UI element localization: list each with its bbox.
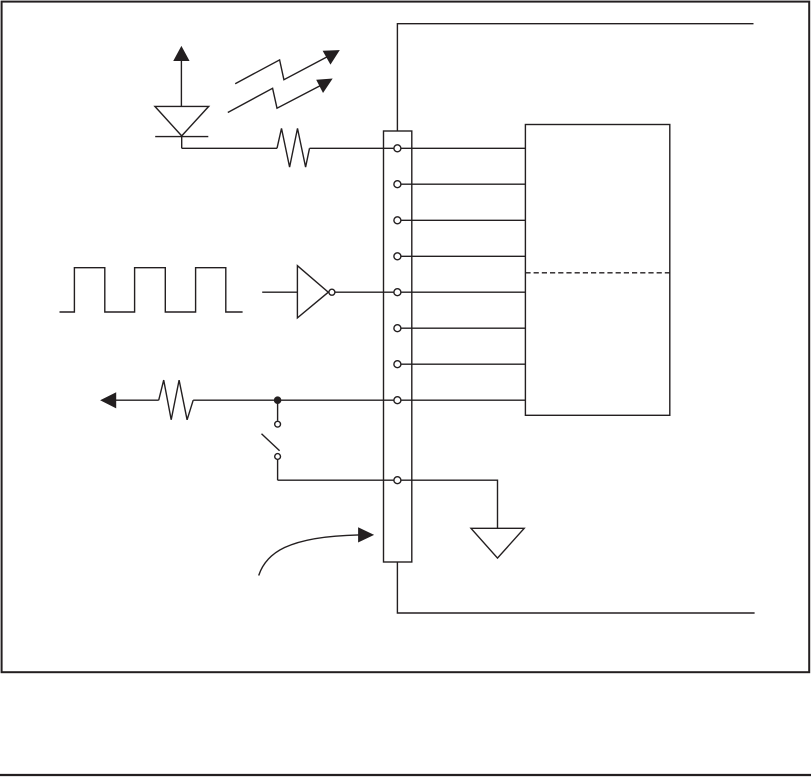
wire pin8 to IC [401, 399, 526, 401]
wire pin5 to IC [401, 291, 526, 293]
wire pin1 to LED resistor [310, 147, 395, 149]
pin 9 [394, 477, 401, 484]
pin 3 [394, 217, 401, 224]
pin 7 [394, 361, 401, 368]
pin 1 [394, 145, 401, 152]
pin 8 [394, 397, 401, 404]
wire pin2 to IC [401, 183, 526, 185]
pin 5 [394, 289, 401, 296]
wire pin6 to IC [401, 327, 526, 329]
connector strip J1 [384, 131, 412, 562]
square wave source [60, 268, 243, 312]
LED D1 [155, 47, 209, 148]
inverter U2 [262, 266, 394, 318]
wire pin9 to ground [401, 480, 498, 528]
pin 2 [394, 181, 401, 188]
wire resistor R2 to pin 8 [193, 399, 394, 401]
wire switch to pin 9 [278, 479, 394, 481]
light ray arrow 2 [228, 79, 331, 112]
junction dot [274, 396, 282, 404]
wire arrow to resistor R2 [114, 399, 159, 401]
IC block U1 [525, 125, 669, 416]
IC internal dashed divider [525, 272, 669, 274]
ground [471, 528, 524, 558]
resistor R1 [277, 128, 310, 167]
wire pin3 to IC [401, 219, 526, 221]
switch S1 [262, 400, 281, 480]
PC enclosure box [397, 24, 754, 613]
footer rule [0, 774, 811, 776]
light ray arrow 1 [235, 51, 338, 84]
resistor R2 [159, 380, 194, 420]
pin 6 [394, 325, 401, 332]
external arrow [102, 393, 116, 407]
curved callout arrow [259, 528, 373, 575]
wire pin4 to IC [401, 255, 526, 257]
wire pin7 to IC [401, 363, 526, 365]
pin 4 [394, 253, 401, 260]
wire LED to resistor R1 [182, 147, 277, 149]
wire pin1 to IC [401, 147, 526, 149]
